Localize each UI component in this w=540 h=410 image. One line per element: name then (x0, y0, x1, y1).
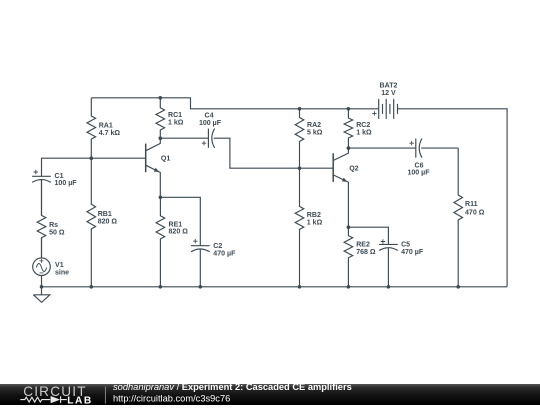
svg-text:C4: C4 (204, 113, 213, 120)
svg-text:Rs: Rs (49, 222, 58, 229)
svg-text:470 µF: 470 µF (401, 249, 424, 256)
svg-text:RB2: RB2 (307, 212, 321, 219)
capacitor C1 (32, 175, 51, 177)
resistor RA1 (87, 98, 96, 158)
svg-text:1 kΩ: 1 kΩ (168, 120, 184, 127)
svg-text:12 V: 12 V (381, 90, 396, 97)
resistor R11 (454, 148, 463, 287)
wire bottom ground rail (42, 286, 508, 288)
svg-text:Q2: Q2 (349, 165, 358, 172)
svg-text:LAB: LAB (67, 396, 92, 406)
svg-text:BAT2: BAT2 (380, 83, 398, 90)
svg-text:C6: C6 (414, 162, 423, 169)
wire top rail from RA1/RC1 to battery (91, 98, 378, 109)
resistor RC2 (344, 109, 353, 148)
C4 plus sign (202, 141, 206, 145)
svg-text:C2: C2 (213, 243, 222, 250)
capacitor C5 (379, 243, 398, 245)
transistor Q1 (145, 144, 147, 173)
footer separator (104, 387, 106, 404)
battery BAT2 (379, 99, 398, 119)
svg-text:RE2: RE2 (356, 242, 370, 249)
C5 plus sign (381, 239, 385, 243)
svg-text:5 kΩ: 5 kΩ (307, 130, 323, 137)
svg-text:C5: C5 (401, 242, 410, 249)
svg-text:C1: C1 (55, 173, 64, 180)
svg-text:http://circuitlab.com/c3s9c76: http://circuitlab.com/c3s9c76 (113, 394, 230, 404)
svg-text:R11: R11 (465, 201, 478, 208)
svg-text:sodhanipranav / Experiment 2:: sodhanipranav / Experiment 2: Cascaded C… (113, 384, 352, 392)
C5 bottom lead (387, 248, 389, 286)
resistor RC1 (156, 98, 165, 138)
svg-text:100 µF: 100 µF (407, 170, 430, 177)
svg-text:820 Ω: 820 Ω (169, 229, 189, 236)
C1 plus sign (34, 170, 38, 174)
C2 plus sign (193, 239, 197, 243)
wire Q2 emitter node to C5 top (348, 227, 388, 244)
BAT2 plus sign (372, 111, 376, 115)
logo resistor-diode line (20, 397, 66, 404)
svg-text:sine: sine (55, 269, 69, 276)
V1 top lead (41, 238, 43, 258)
capacitor C2 (191, 245, 210, 247)
svg-text:820 Ω: 820 Ω (98, 218, 118, 225)
svg-text:RC2: RC2 (356, 122, 370, 129)
wire Q2 collector to C6 (348, 147, 415, 149)
transistor Q2 (332, 153, 334, 182)
ground (33, 287, 49, 303)
svg-text:RA1: RA1 (99, 123, 113, 130)
C2 bottom lead (199, 250, 201, 287)
wire battery to right column down to bottom rail (398, 109, 508, 287)
capacitor C6 (415, 139, 417, 158)
svg-text:100 µF: 100 µF (199, 120, 222, 127)
C6 plus sign (409, 141, 413, 145)
resistor Rs (37, 180, 46, 258)
resistor RB1 (87, 158, 96, 287)
svg-text:768 Ω: 768 Ω (356, 249, 376, 256)
wire input node: C1 top to Q1 base (42, 158, 146, 176)
wire Q1 emitter node to C2 top (160, 197, 200, 245)
C1 bottom lead (41, 180, 43, 215)
svg-text:RC1: RC1 (168, 112, 182, 119)
logo diode triangle (51, 396, 61, 403)
V1 bottom lead (41, 276, 43, 287)
footer bar (0, 384, 540, 405)
svg-text:4.7 kΩ: 4.7 kΩ (99, 130, 121, 137)
svg-text:470 µF: 470 µF (213, 250, 236, 257)
svg-text:100 µF: 100 µF (55, 180, 78, 187)
svg-text:RE1: RE1 (169, 221, 183, 228)
svg-text:50 Ω: 50 Ω (49, 229, 65, 236)
source V1 (33, 258, 51, 276)
svg-text:V1: V1 (55, 262, 64, 269)
resistor RE1 (156, 197, 165, 286)
wire Q1 collector to C4 (160, 137, 208, 139)
wire C6 to R11 top (421, 147, 458, 149)
resistor RA2 (295, 109, 304, 168)
svg-text:RB1: RB1 (98, 211, 112, 218)
svg-text:470 Ω: 470 Ω (465, 209, 485, 216)
svg-text:1 kΩ: 1 kΩ (356, 130, 372, 137)
resistor RB2 (295, 168, 304, 287)
svg-text:1 kΩ: 1 kΩ (307, 219, 323, 226)
svg-text:RA2: RA2 (307, 122, 321, 129)
capacitor C4 (207, 129, 209, 148)
svg-text:Q1: Q1 (161, 156, 170, 163)
wire C4 to Q2 base (214, 138, 334, 168)
resistor RE2 (344, 227, 353, 287)
